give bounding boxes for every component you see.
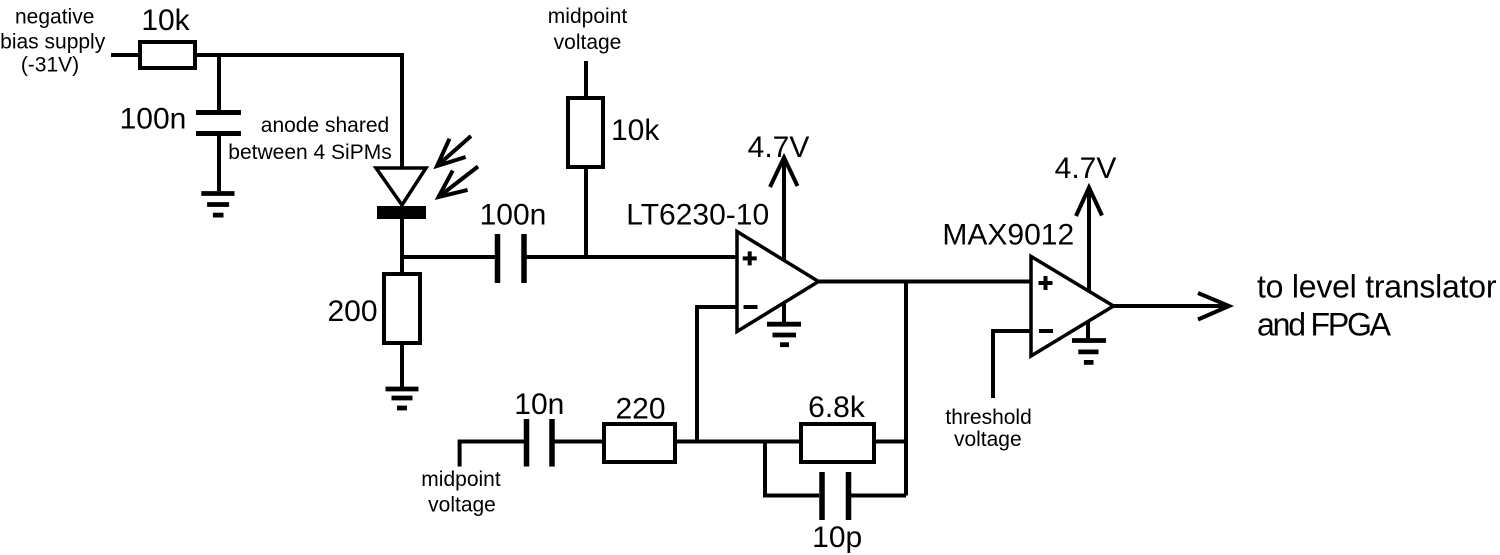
svg-text:and FPGA: and FPGA <box>1257 307 1392 343</box>
svg-text:10p: 10p <box>812 521 862 554</box>
svg-text:voltage: voltage <box>428 494 496 517</box>
svg-text:220: 220 <box>615 393 665 426</box>
svg-text:100n: 100n <box>120 102 187 135</box>
svg-text:LT6230-10: LT6230-10 <box>626 198 769 231</box>
svg-text:anode shared: anode shared <box>261 114 389 137</box>
svg-text:100n: 100n <box>480 198 547 231</box>
svg-text:negative: negative <box>15 6 94 29</box>
svg-text:voltage: voltage <box>954 428 1022 451</box>
svg-text:threshold: threshold <box>945 406 1031 429</box>
svg-text:bias supply: bias supply <box>0 31 106 54</box>
svg-text:6.8k: 6.8k <box>808 391 866 424</box>
svg-text:MAX9012: MAX9012 <box>942 218 1074 251</box>
svg-text:10n: 10n <box>514 388 564 421</box>
svg-text:10k: 10k <box>611 114 660 147</box>
svg-text:4.7V: 4.7V <box>748 131 810 164</box>
svg-text:to level translator: to level translator <box>1257 269 1497 305</box>
svg-text:midpoint: midpoint <box>421 468 501 491</box>
svg-text:between 4 SiPMs: between 4 SiPMs <box>228 141 391 164</box>
svg-text:voltage: voltage <box>554 31 622 54</box>
svg-text:(-31V): (-31V) <box>21 53 79 76</box>
svg-text:200: 200 <box>327 295 377 328</box>
svg-text:10k: 10k <box>141 4 190 37</box>
svg-text:4.7V: 4.7V <box>1055 152 1117 185</box>
svg-text:midpoint: midpoint <box>548 5 628 28</box>
